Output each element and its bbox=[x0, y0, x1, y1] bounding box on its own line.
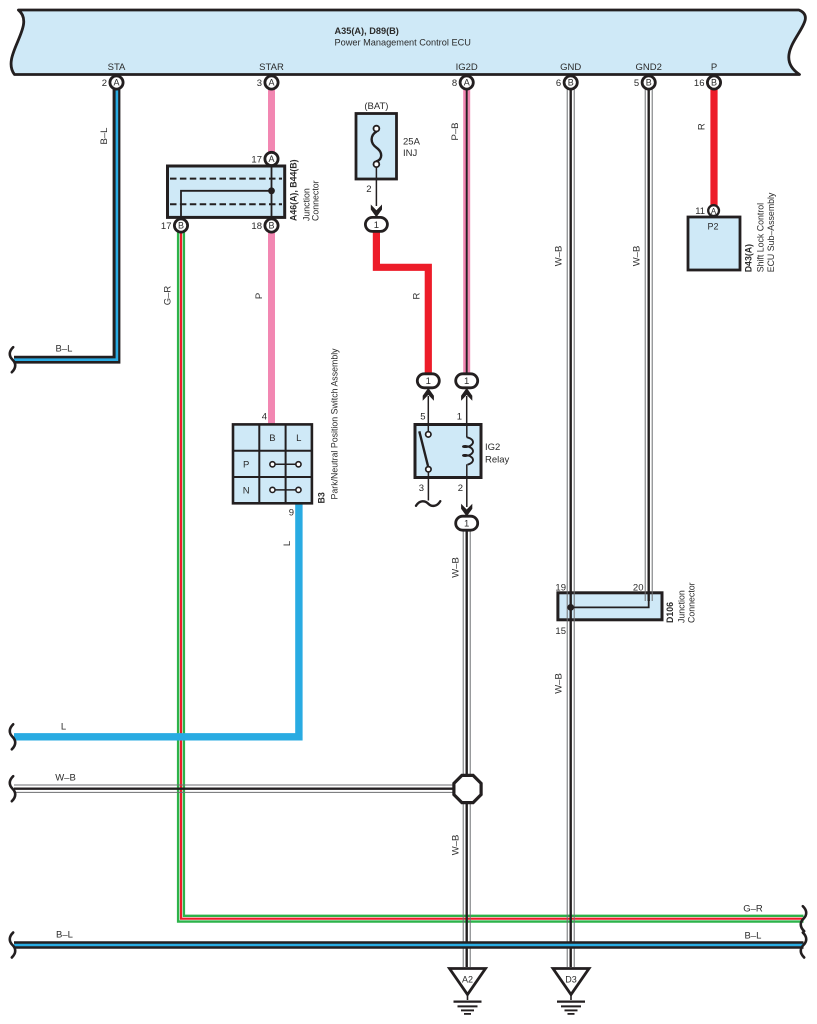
svg-text:5: 5 bbox=[634, 78, 639, 89]
svg-text:INJ: INJ bbox=[403, 148, 418, 159]
svg-text:19: 19 bbox=[555, 583, 566, 594]
svg-text:6: 6 bbox=[556, 78, 561, 89]
svg-text:25A: 25A bbox=[403, 137, 421, 148]
svg-text:P: P bbox=[711, 62, 717, 73]
svg-text:STAR: STAR bbox=[259, 62, 284, 73]
svg-text:L: L bbox=[282, 541, 293, 546]
svg-text:15: 15 bbox=[555, 626, 566, 637]
svg-text:B: B bbox=[268, 221, 274, 231]
svg-text:A: A bbox=[464, 78, 470, 88]
svg-text:B: B bbox=[568, 78, 574, 88]
svg-text:18: 18 bbox=[251, 221, 262, 232]
svg-text:IG2: IG2 bbox=[485, 442, 500, 453]
svg-text:W–B: W–B bbox=[554, 246, 565, 267]
svg-text:Connector: Connector bbox=[687, 582, 697, 623]
svg-text:B: B bbox=[269, 433, 275, 444]
svg-text:A2: A2 bbox=[462, 975, 473, 985]
svg-text:A: A bbox=[268, 78, 274, 88]
svg-text:B: B bbox=[178, 221, 184, 231]
svg-text:B–L: B–L bbox=[745, 931, 762, 942]
svg-text:W–B: W–B bbox=[632, 246, 643, 267]
svg-text:B3: B3 bbox=[317, 492, 327, 503]
svg-text:G–R: G–R bbox=[163, 286, 174, 306]
svg-text:1: 1 bbox=[464, 519, 469, 530]
svg-text:17: 17 bbox=[251, 154, 262, 165]
svg-text:W–B: W–B bbox=[554, 673, 565, 694]
svg-text:1: 1 bbox=[457, 412, 462, 423]
svg-text:17: 17 bbox=[161, 221, 172, 232]
svg-text:ECU Sub–Assembly: ECU Sub–Assembly bbox=[766, 192, 776, 272]
svg-text:B–L: B–L bbox=[99, 128, 110, 145]
svg-text:W–B: W–B bbox=[451, 835, 462, 856]
svg-text:1: 1 bbox=[374, 220, 379, 231]
svg-text:A: A bbox=[268, 154, 274, 164]
svg-text:A: A bbox=[711, 207, 717, 216]
svg-text:Park/Neutral Position Switch A: Park/Neutral Position Switch Assembly bbox=[330, 348, 340, 500]
svg-text:G–R: G–R bbox=[743, 904, 763, 915]
svg-text:1: 1 bbox=[426, 376, 431, 387]
svg-text:GND: GND bbox=[560, 62, 581, 73]
svg-text:Shift Lock Control: Shift Lock Control bbox=[756, 203, 766, 272]
svg-text:3: 3 bbox=[257, 78, 262, 89]
svg-text:W–B: W–B bbox=[55, 773, 76, 784]
svg-text:2: 2 bbox=[366, 184, 371, 195]
svg-text:3: 3 bbox=[419, 483, 424, 494]
svg-text:2: 2 bbox=[458, 483, 463, 494]
svg-text:1: 1 bbox=[464, 376, 469, 387]
svg-text:Junction: Junction bbox=[677, 590, 687, 623]
svg-text:(BAT): (BAT) bbox=[364, 101, 388, 112]
svg-text:W–B: W–B bbox=[451, 557, 462, 578]
svg-text:20: 20 bbox=[633, 583, 644, 594]
svg-text:D43(A): D43(A) bbox=[744, 244, 754, 272]
svg-text:B–L: B–L bbox=[56, 344, 73, 355]
svg-text:D3: D3 bbox=[565, 975, 577, 985]
svg-text:9: 9 bbox=[289, 508, 294, 519]
svg-text:P: P bbox=[243, 459, 249, 470]
svg-text:A: A bbox=[113, 78, 119, 88]
svg-text:L: L bbox=[61, 722, 66, 733]
svg-text:B: B bbox=[646, 78, 652, 88]
svg-text:2: 2 bbox=[102, 78, 107, 89]
svg-text:N: N bbox=[243, 486, 250, 497]
svg-text:IG2D: IG2D bbox=[456, 62, 478, 73]
svg-text:P2: P2 bbox=[707, 222, 718, 232]
svg-text:STA: STA bbox=[108, 62, 126, 73]
svg-text:5: 5 bbox=[420, 412, 425, 423]
svg-text:R: R bbox=[412, 292, 423, 299]
svg-text:Power Management Control ECU: Power Management Control ECU bbox=[335, 38, 471, 48]
svg-text:11: 11 bbox=[695, 206, 705, 217]
svg-text:8: 8 bbox=[452, 78, 457, 89]
svg-text:B–L: B–L bbox=[56, 930, 73, 941]
svg-text:A35(A), D89(B): A35(A), D89(B) bbox=[335, 26, 399, 36]
svg-text:P: P bbox=[254, 293, 265, 299]
svg-text:P–B: P–B bbox=[450, 123, 461, 141]
svg-text:R: R bbox=[697, 123, 708, 130]
svg-text:4: 4 bbox=[262, 412, 267, 423]
svg-text:B: B bbox=[711, 78, 717, 88]
svg-text:16: 16 bbox=[694, 78, 705, 89]
svg-text:Relay: Relay bbox=[485, 455, 510, 466]
svg-text:Connector: Connector bbox=[311, 180, 321, 221]
svg-text:D106: D106 bbox=[665, 602, 675, 623]
svg-text:L: L bbox=[296, 433, 301, 444]
svg-text:A46(A), B44(B): A46(A), B44(B) bbox=[289, 159, 299, 221]
svg-text:GND2: GND2 bbox=[635, 62, 661, 73]
